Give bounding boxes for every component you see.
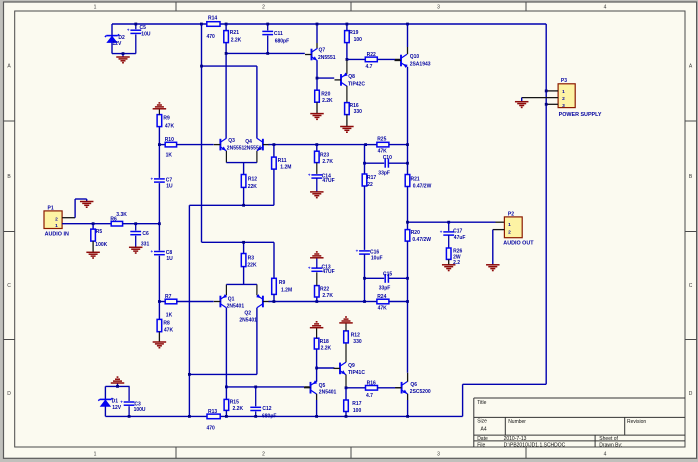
connector P2 AUDIO OUT — [503, 211, 534, 246]
junction R14 ends — [200, 23, 228, 26]
resistor R3 22K — [241, 241, 257, 285]
svg-text:4.7: 4.7 — [366, 64, 373, 70]
svg-text:R18: R18 — [320, 339, 329, 345]
svg-text:2.7K: 2.7K — [322, 159, 333, 165]
ground below C14 — [310, 178, 324, 198]
wire output column upper — [407, 67, 409, 175]
svg-text:100: 100 — [354, 37, 363, 43]
svg-text:+: + — [127, 28, 130, 33]
svg-text:2SA1943: 2SA1943 — [410, 61, 431, 67]
wire R6 to coupling node — [123, 222, 161, 225]
capacitor C5 10U — [127, 24, 151, 54]
svg-text:680pF: 680pF — [275, 39, 289, 45]
wire P3 pin3 — [545, 103, 558, 106]
svg-text:1: 1 — [94, 5, 97, 11]
svg-text:R3: R3 — [248, 255, 255, 261]
ground above D1 box — [111, 376, 125, 388]
svg-text:1: 1 — [94, 452, 97, 458]
capacitor C8 1U — [151, 249, 174, 262]
svg-text:3: 3 — [437, 5, 440, 11]
connector P1 AUDIO IN — [44, 205, 69, 237]
svg-text:1: 1 — [508, 222, 511, 228]
svg-text:2: 2 — [262, 5, 265, 11]
svg-text:R11: R11 — [278, 158, 287, 164]
wire Q6 collector — [407, 373, 409, 382]
resistor R11 1.2M — [272, 145, 292, 206]
svg-text:C5: C5 — [140, 25, 147, 31]
resistor R25 47K — [366, 137, 409, 155]
wire output to P2 — [406, 221, 504, 224]
resistor R26 2W 2.2 — [446, 248, 462, 266]
svg-text:2.2K: 2.2K — [322, 98, 333, 104]
svg-text:R8: R8 — [163, 320, 170, 326]
wire right supply rail — [545, 24, 547, 384]
zener diode D1 12V — [98, 386, 121, 416]
svg-text:Q6: Q6 — [410, 382, 417, 388]
wire Q7 base — [225, 52, 305, 55]
svg-text:R20: R20 — [411, 230, 420, 236]
capacitor C3 100U — [120, 386, 146, 417]
svg-text:R17: R17 — [352, 401, 361, 407]
resistor R17b 100 — [344, 388, 362, 418]
svg-text:R21: R21 — [411, 176, 420, 182]
svg-text:R7: R7 — [165, 294, 172, 300]
wire input column — [158, 145, 160, 302]
svg-text:+: + — [151, 249, 154, 254]
svg-text:330: 330 — [353, 339, 362, 345]
svg-text:R24: R24 — [377, 294, 386, 300]
svg-text:Drawn By:: Drawn By: — [599, 442, 622, 448]
svg-text:22K: 22K — [248, 184, 258, 190]
wire bottom negative rail — [105, 415, 462, 417]
resistor R22b 2.7K — [315, 271, 334, 301]
svg-text:+: + — [308, 266, 311, 271]
svg-text:R14: R14 — [208, 16, 217, 22]
svg-text:Q9: Q9 — [348, 363, 355, 369]
svg-text:Q10: Q10 — [410, 54, 420, 60]
ground below R8 — [153, 332, 167, 349]
svg-text:D:\PB2010\JD1.1.SCHDOC: D:\PB2010\JD1.1.SCHDOC — [504, 442, 566, 448]
resistor R20b 0.47/2W output emitter — [405, 230, 431, 243]
resistor R13 470 — [188, 409, 220, 432]
svg-text:10uF: 10uF — [371, 256, 383, 262]
svg-text:Number: Number — [508, 419, 526, 425]
svg-text:D: D — [7, 391, 11, 397]
svg-text:2010-7-13: 2010-7-13 — [504, 436, 527, 442]
svg-text:D1: D1 — [112, 399, 119, 405]
svg-text:1.2M: 1.2M — [281, 287, 292, 293]
svg-text:Q3: Q3 — [228, 138, 235, 144]
svg-text:33pF: 33pF — [378, 170, 390, 176]
resistor R5 100K — [91, 224, 108, 248]
transistor Q6 2SC5200 — [395, 381, 431, 395]
svg-text:Title: Title — [477, 400, 486, 406]
svg-text:4: 4 — [604, 452, 607, 458]
capacitor C14 47UF — [308, 172, 335, 184]
svg-text:A4: A4 — [481, 427, 487, 433]
wire top positive rail — [112, 23, 546, 25]
svg-text:1.2M: 1.2M — [280, 164, 291, 170]
wire diff pair emitters — [226, 151, 257, 163]
svg-text:47K: 47K — [165, 123, 175, 129]
svg-text:47uF: 47uF — [454, 235, 466, 241]
transistor Q2 2N5401 — [239, 294, 269, 324]
svg-text:0.47/2W: 0.47/2W — [413, 183, 432, 189]
svg-text:2SC5200: 2SC5200 — [410, 389, 431, 395]
capacitor C10 33pF — [363, 155, 409, 177]
ground above R9 — [153, 102, 167, 115]
wire lower pair emitters — [226, 284, 257, 295]
svg-text:R5: R5 — [96, 229, 103, 235]
resistor R10 1K — [159, 137, 213, 159]
title block — [474, 398, 685, 448]
ground below R20 — [310, 102, 324, 120]
capacitor C16 10uF — [356, 186, 383, 302]
transistor Q7 2N5551 — [305, 23, 336, 61]
wire Q2 base bus — [269, 300, 365, 303]
capacitor C13 47UF — [308, 264, 335, 275]
wire supply rail jog to bottom rail — [463, 384, 547, 416]
zener diode D2 12V — [105, 24, 125, 54]
wire Q2 collector to lower bus — [188, 308, 257, 376]
ground above R12b — [339, 316, 353, 331]
svg-text:100K: 100K — [95, 242, 107, 248]
svg-text:2N5551: 2N5551 — [318, 55, 336, 61]
svg-text:10U: 10U — [141, 31, 151, 37]
ground below R5 — [86, 241, 100, 259]
svg-text:2: 2 — [55, 217, 58, 223]
resistor R12 22K — [241, 163, 257, 206]
svg-text:R25: R25 — [377, 137, 386, 143]
svg-text:R21: R21 — [230, 30, 239, 36]
svg-text:D: D — [689, 391, 693, 397]
resistor R15 2.2K — [224, 399, 243, 417]
wire Q5 collector to rail — [315, 394, 318, 418]
svg-text:1U: 1U — [166, 184, 173, 190]
svg-text:R12: R12 — [248, 176, 257, 182]
svg-text:100: 100 — [353, 408, 362, 414]
svg-text:C15: C15 — [383, 271, 392, 277]
svg-text:P1: P1 — [48, 205, 54, 211]
svg-text:C: C — [7, 283, 11, 289]
svg-text:2: 2 — [508, 229, 511, 235]
svg-text:Q7: Q7 — [319, 48, 326, 54]
svg-text:TIP41C: TIP41C — [348, 370, 365, 376]
svg-text:C12: C12 — [262, 406, 271, 412]
svg-text:+: + — [308, 172, 311, 177]
svg-text:Sheet of: Sheet of — [599, 436, 618, 442]
transistor Q4 2N5551 — [244, 138, 269, 151]
svg-text:R16: R16 — [367, 380, 376, 386]
wire Q5 emitter node — [315, 367, 334, 382]
svg-text:C16: C16 — [370, 249, 379, 255]
wire P2 pin2 to ground — [493, 230, 505, 265]
wire Q4 base bus — [269, 143, 368, 146]
ground above R18 — [310, 321, 324, 338]
ground top-left — [116, 52, 130, 63]
capacitor C15 33pF — [363, 271, 407, 291]
svg-text:R19: R19 — [349, 30, 358, 36]
svg-text:470: 470 — [207, 34, 216, 40]
resistor R24 47K — [363, 294, 407, 311]
svg-text:C11: C11 — [274, 31, 283, 37]
svg-text:33pF: 33pF — [379, 285, 391, 291]
svg-text:22K: 22K — [247, 263, 257, 269]
svg-text:47K: 47K — [378, 149, 388, 155]
svg-text:1U: 1U — [166, 256, 173, 262]
svg-text:R22: R22 — [367, 52, 376, 58]
resistor R19 100 — [345, 23, 363, 61]
svg-text:R23: R23 — [320, 152, 329, 158]
svg-text:2.2K: 2.2K — [233, 406, 244, 412]
svg-text:22: 22 — [367, 182, 373, 188]
capacitor C7 1U — [151, 176, 173, 189]
svg-text:R9: R9 — [279, 280, 286, 286]
svg-text:Size: Size — [477, 419, 487, 425]
ground above C13 — [310, 251, 324, 268]
svg-text:2N5551: 2N5551 — [227, 145, 245, 151]
svg-text:100U: 100U — [134, 407, 146, 413]
transistor Q1 2N5401 — [214, 294, 244, 310]
resistor R23 2.7K — [315, 145, 334, 175]
svg-text:+: + — [356, 248, 359, 253]
svg-text:Q1: Q1 — [228, 296, 235, 302]
wire Q8 emitter to R19 node — [346, 59, 348, 73]
svg-text:C6: C6 — [142, 231, 149, 237]
svg-text:3: 3 — [562, 103, 565, 109]
capacitor C11 680pF — [262, 23, 289, 55]
capacitor C12 680pF — [250, 387, 276, 419]
resistor R9b 1.2M — [272, 242, 292, 301]
svg-text:C8: C8 — [166, 250, 173, 256]
svg-text:2N5401: 2N5401 — [319, 390, 337, 396]
wire Q1 collector column — [225, 308, 228, 400]
wire Q5 base bus — [226, 386, 304, 389]
svg-text:R20: R20 — [321, 91, 330, 97]
svg-text:POWER SUPPLY: POWER SUPPLY — [559, 112, 602, 118]
svg-text:Revision: Revision — [627, 419, 646, 425]
svg-text:47K: 47K — [164, 327, 174, 333]
svg-text:C10: C10 — [383, 155, 392, 161]
svg-text:4.7: 4.7 — [366, 393, 373, 399]
resistor R14 470 — [207, 16, 221, 41]
svg-text:12V: 12V — [112, 405, 122, 411]
wire R21b to output node — [407, 187, 409, 230]
resistor R9 47K — [157, 115, 174, 146]
svg-text:2: 2 — [562, 96, 565, 102]
resistor R12b 330 — [344, 331, 362, 362]
svg-text:470: 470 — [207, 426, 216, 432]
svg-text:2.2K: 2.2K — [321, 346, 332, 352]
transistor Q5 2N5401 — [304, 380, 337, 395]
svg-text:R9: R9 — [163, 115, 170, 121]
wire output column lower — [406, 241, 409, 373]
svg-text:+: + — [151, 176, 154, 181]
resistor R21 2.2K — [224, 24, 242, 138]
ground below R26 — [442, 259, 456, 271]
svg-text:C7: C7 — [166, 178, 173, 184]
resistor R16 330 — [345, 86, 363, 115]
svg-text:P2: P2 — [508, 211, 514, 217]
transistor Q9 TIP41C — [334, 362, 366, 376]
wire regulated rail left vertical — [202, 24, 275, 242]
wire Q6 emitter to rail — [406, 394, 409, 418]
wire P3 pin1 — [545, 90, 558, 93]
resistor R6 3.3K — [110, 212, 127, 226]
wire Q9 emitter node — [345, 375, 366, 390]
transistor Q8 TIP42C — [335, 72, 366, 87]
svg-text:Q2: Q2 — [244, 311, 251, 317]
svg-text:C: C — [689, 283, 693, 289]
svg-text:2: 2 — [262, 452, 265, 458]
svg-text:0.47/2W: 0.47/2W — [412, 237, 431, 243]
wire Q7 emitter node — [316, 61, 335, 90]
svg-text:R22: R22 — [320, 286, 329, 292]
resistor R18 2.2K — [314, 338, 331, 368]
ground P1 shield — [80, 199, 94, 208]
svg-text:1K: 1K — [166, 312, 173, 318]
svg-text:3: 3 — [437, 452, 440, 458]
ground P3 center tap — [515, 102, 529, 109]
svg-text:1K: 1K — [166, 152, 173, 158]
svg-text:P3: P3 — [561, 78, 567, 84]
capacitor C17 47uF — [440, 222, 466, 248]
transistor Q10 2SA1943 — [395, 23, 431, 68]
wire zener box top — [105, 385, 129, 387]
svg-text:47UF: 47UF — [322, 269, 334, 275]
svg-text:R13: R13 — [208, 409, 217, 415]
wire P1 pin1 input — [62, 222, 111, 225]
svg-text:4: 4 — [604, 5, 607, 11]
svg-text:2.2K: 2.2K — [231, 37, 242, 43]
svg-text:R17: R17 — [367, 175, 376, 181]
resistor R8 47K — [157, 302, 173, 334]
ground below R16 — [340, 115, 354, 133]
resistor R21b 0.47/2W output emitter — [405, 175, 431, 190]
svg-text:3.3K: 3.3K — [116, 212, 127, 218]
svg-text:R10: R10 — [165, 137, 174, 143]
junction C5 top rail — [134, 23, 137, 26]
svg-text:680pF: 680pF — [262, 413, 276, 419]
svg-text:1: 1 — [55, 223, 58, 229]
capacitor C6 331 — [130, 224, 149, 248]
svg-text:Q4: Q4 — [245, 139, 252, 145]
svg-text:2N5401: 2N5401 — [239, 318, 257, 324]
wire zener box bottom — [112, 53, 136, 55]
wire Q10 collector — [407, 24, 409, 54]
svg-text:Q8: Q8 — [348, 74, 355, 80]
resistor R16b 4.7 — [366, 380, 396, 399]
resistor R20 2.2K — [315, 90, 333, 104]
svg-text:47UF: 47UF — [322, 178, 334, 184]
wire upper feedback bus y205 — [189, 204, 274, 417]
svg-text:+: + — [440, 229, 443, 234]
svg-text:TIP42C: TIP42C — [348, 81, 365, 87]
wire Q4 collector feed — [200, 65, 257, 139]
svg-text:Date: Date — [477, 436, 488, 442]
transistor Q3 2N5551 — [214, 138, 245, 151]
svg-text:2N5401: 2N5401 — [227, 304, 245, 310]
svg-text:R12: R12 — [351, 333, 360, 339]
svg-text:C17: C17 — [453, 228, 462, 234]
wire P1 pin2 to ground — [62, 199, 87, 218]
svg-text:12V: 12V — [112, 41, 122, 47]
resistor R7 1K — [158, 294, 214, 319]
svg-text:R15: R15 — [230, 399, 239, 405]
svg-text:AUDIO OUT: AUDIO OUT — [503, 240, 534, 246]
svg-text:330: 330 — [354, 109, 363, 115]
ground below C6 — [129, 247, 143, 254]
svg-text:Q5: Q5 — [319, 383, 326, 389]
connector P3 POWER SUPPLY — [558, 78, 602, 118]
svg-text:2.7K: 2.7K — [322, 293, 333, 299]
svg-text:47K: 47K — [378, 305, 388, 311]
resistor R17 22 — [362, 145, 376, 188]
svg-text:AUDIO IN: AUDIO IN — [45, 231, 69, 237]
svg-text:R16: R16 — [350, 103, 359, 109]
svg-text:1: 1 — [562, 89, 565, 95]
svg-text:File: File — [477, 442, 485, 448]
wire P3 pin2 to ground — [522, 98, 558, 102]
resistor R22 4.7 — [347, 52, 395, 70]
svg-text:2N5551: 2N5551 — [244, 145, 262, 151]
ground P2 return — [486, 265, 500, 272]
svg-text:+: + — [120, 400, 123, 405]
